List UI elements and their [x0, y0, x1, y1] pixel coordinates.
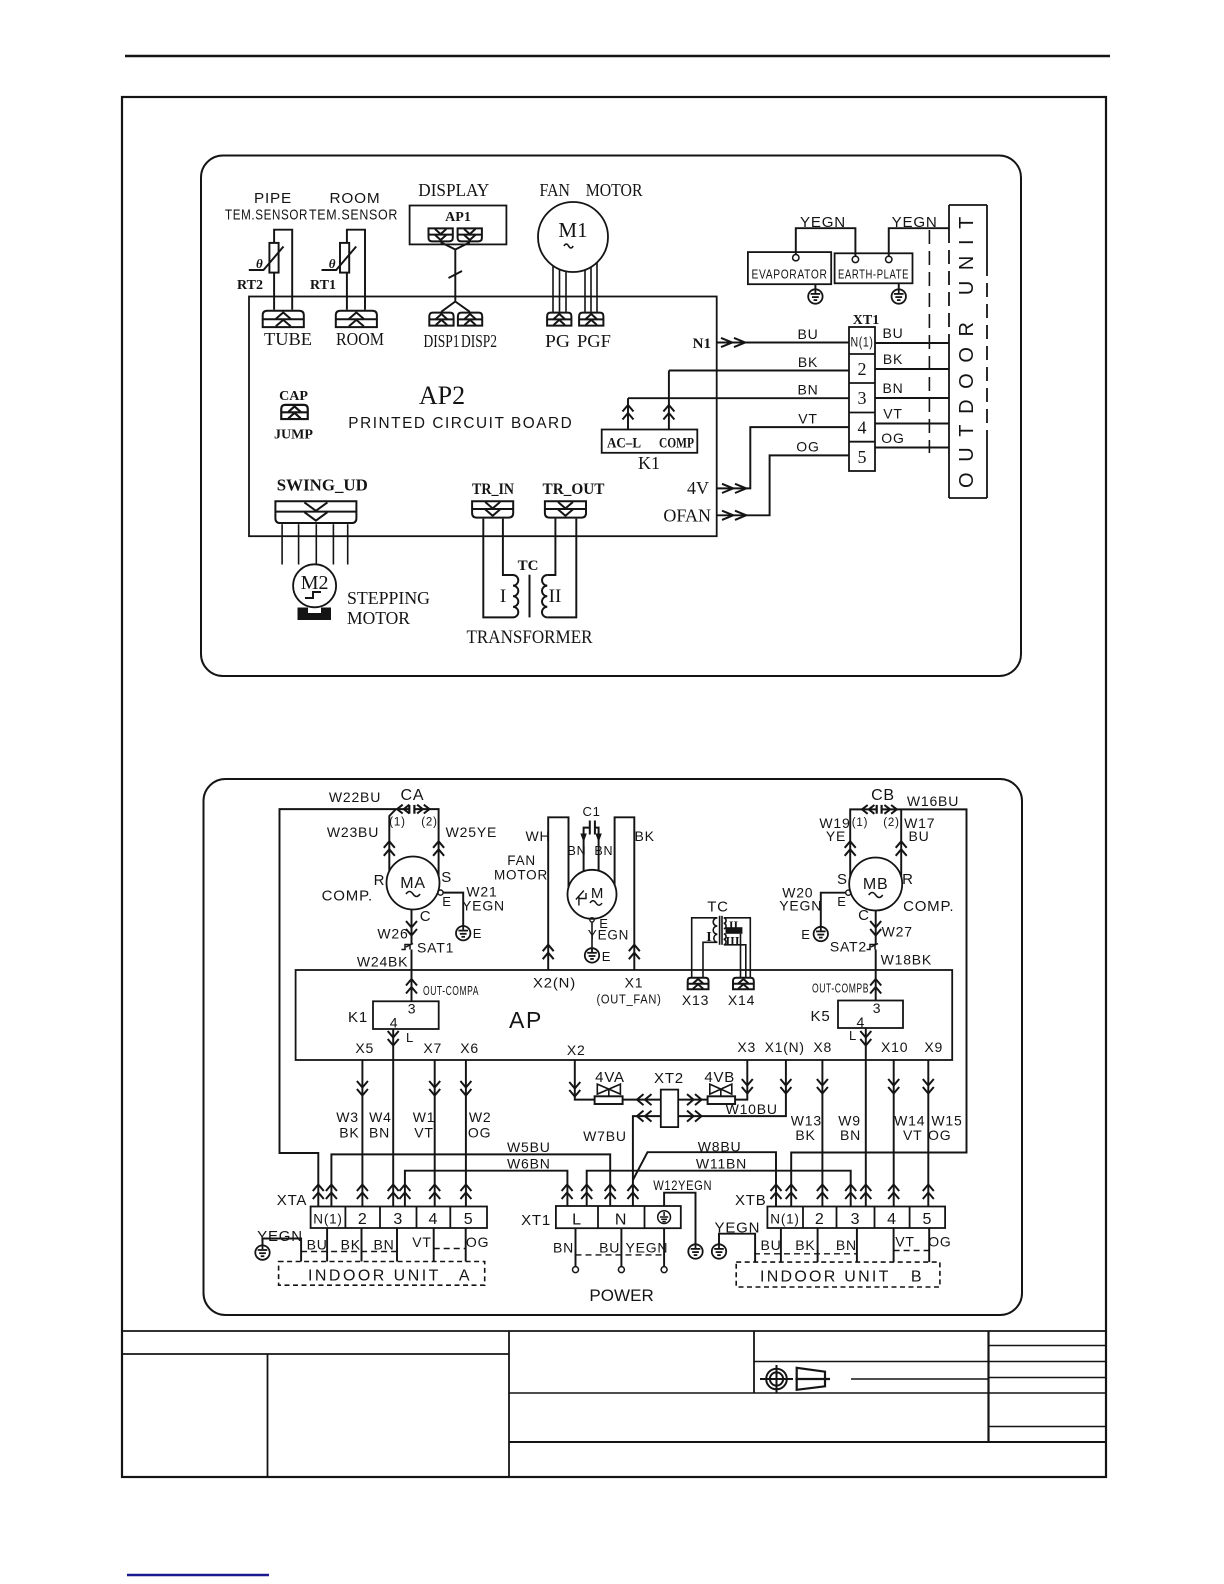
connector XT2 box: [661, 1090, 678, 1128]
wire W5BU: [331, 1154, 610, 1206]
svg-text:3: 3: [873, 1000, 882, 1016]
connector X14: [733, 978, 754, 989]
arrow XT2 right top: [687, 1094, 702, 1105]
svg-text:W3: W3: [336, 1109, 359, 1125]
svg-text:MA: MA: [400, 875, 426, 892]
ground MA: [456, 926, 470, 940]
arrow X3 down: [742, 1079, 753, 1094]
wire X9 to XTB5: [927, 1060, 929, 1207]
svg-text:OFAN: OFAN: [663, 506, 711, 526]
svg-text:W22BU: W22BU: [329, 789, 381, 805]
arrow XT2 left bottom: [637, 1111, 652, 1122]
arrow X7 down: [429, 1081, 440, 1096]
svg-text:X7: X7: [423, 1040, 442, 1056]
svg-text:BN: BN: [797, 382, 818, 398]
wire CA plate2 to corner: [414, 809, 438, 876]
wires M1 to PGF: [585, 263, 597, 312]
arrow C1 right (solid): [595, 834, 601, 843]
earth-plate terminal circle 2: [886, 256, 892, 262]
svg-text:(1): (1): [389, 817, 405, 829]
fan motor M circle (outdoor): [568, 870, 617, 919]
svg-text:S: S: [837, 871, 848, 888]
connector PGF: [579, 313, 603, 326]
wire CB plate1 W19YE: [850, 809, 877, 876]
svg-text:TR_OUT: TR_OUT: [543, 481, 605, 498]
svg-text:AP: AP: [509, 1007, 543, 1033]
svg-text:OG: OG: [928, 1234, 951, 1250]
svg-text:AC–L: AC–L: [607, 436, 641, 452]
svg-text:(2): (2): [883, 817, 899, 829]
svg-text:A: A: [459, 1268, 471, 1285]
wire W20YEGN to ground: [821, 893, 846, 927]
transformer TC secondary wires: [547, 519, 576, 618]
MB earth terminal: [846, 890, 851, 895]
svg-text:N1: N1: [693, 336, 711, 352]
svg-text:YEGN: YEGN: [257, 1228, 303, 1245]
wire M E to ground: [591, 922, 593, 948]
dashed cable power: [576, 1254, 665, 1256]
svg-text:M2: M2: [301, 572, 329, 594]
wire CB plate2 W16BU loop to XTB: [791, 809, 966, 1206]
arrow COMP pin: [663, 405, 674, 420]
svg-text:OUT-COMPA: OUT-COMPA: [423, 984, 479, 998]
wire XT2 to 4VB: [678, 1099, 707, 1101]
wire K1 L to XTA3: [392, 1029, 394, 1207]
svg-text:BN: BN: [840, 1127, 861, 1143]
wire BK: [669, 370, 849, 372]
svg-text:RT1: RT1: [310, 278, 336, 293]
label W9 BN: [838, 1113, 861, 1144]
svg-text:CB: CB: [871, 787, 895, 804]
connector TR_OUT (down): [545, 501, 586, 517]
evaporator box: [748, 252, 831, 284]
svg-text:BU: BU: [599, 1240, 620, 1256]
svg-text:VT: VT: [798, 411, 818, 427]
svg-text:COMP.: COMP.: [322, 888, 373, 905]
valve 4VA bowtie: [597, 1084, 620, 1096]
wire YEGN XTB: [719, 1234, 755, 1262]
connector DISP1: [429, 313, 453, 326]
arrows into XTB: [771, 1185, 934, 1200]
svg-text:STEPPING: STEPPING: [347, 588, 430, 608]
earth-plate box: [835, 253, 913, 283]
label W13 BK: [791, 1113, 822, 1144]
arrow X8 down: [817, 1079, 828, 1094]
svg-text:YEGN: YEGN: [625, 1240, 668, 1256]
svg-text:X5: X5: [355, 1040, 374, 1056]
arrows into XTA: [313, 1185, 472, 1200]
svg-text:MOTOR: MOTOR: [494, 868, 548, 883]
wire 4VB to X3: [735, 1060, 747, 1100]
svg-text:S: S: [441, 869, 452, 886]
label W19 YE: [819, 815, 850, 844]
title block top line: [122, 1330, 1106, 1332]
svg-text:X2(N): X2(N): [533, 975, 576, 991]
terminal block XTA: [311, 1207, 487, 1229]
transformer TC secondary coil II: [542, 575, 547, 617]
svg-text:CA: CA: [400, 787, 424, 804]
label W3 BK: [336, 1109, 359, 1141]
arrows into XT1 power: [562, 1185, 639, 1200]
wire W17BU to MB R: [900, 809, 902, 876]
svg-text:W1: W1: [413, 1109, 436, 1125]
power terminal circles: [573, 1267, 668, 1273]
wire C1 left lead: [584, 828, 590, 872]
svg-text:X1: X1: [625, 975, 644, 991]
svg-text:E: E: [801, 927, 810, 942]
svg-text:OG: OG: [468, 1125, 491, 1141]
svg-text:θ: θ: [256, 256, 263, 271]
svg-text:X8: X8: [813, 1039, 832, 1055]
wire AC-L pin to BN: [627, 398, 629, 429]
transformer TC primary coil I: [513, 575, 518, 617]
relay K1 box: [602, 430, 698, 453]
wires XT1 to power plug: [576, 1228, 665, 1266]
arrow C MB down: [870, 921, 881, 936]
label FAN MOTOR 2: [494, 853, 548, 883]
arrow X6 down: [460, 1081, 471, 1096]
outdoor unit box: [949, 205, 987, 498]
dashed boundary line: [928, 230, 930, 453]
svg-text:DISP2: DISP2: [461, 331, 497, 351]
svg-text:JUMP: JUMP: [274, 428, 313, 443]
svg-text:BN: BN: [553, 1240, 574, 1256]
M motor sine mark: [590, 901, 602, 905]
M1 sine mark: [564, 244, 573, 248]
svg-text:BK: BK: [634, 828, 654, 844]
svg-text:K5: K5: [811, 1008, 831, 1025]
svg-text:TC: TC: [518, 558, 539, 574]
svg-text:XT2: XT2: [654, 1070, 684, 1087]
svg-text:OG: OG: [881, 430, 904, 446]
svg-text:2: 2: [358, 1211, 368, 1228]
label W1 VT: [413, 1109, 436, 1141]
thermal switch SAT2: [867, 944, 879, 950]
svg-text:SAT2: SAT2: [830, 939, 867, 955]
arrow CB terminal 1: [862, 805, 874, 814]
svg-text:COMP: COMP: [659, 436, 694, 452]
label W17 BU: [904, 815, 935, 844]
svg-text:BU: BU: [908, 828, 929, 844]
thermistor RT2 body: [249, 243, 284, 273]
svg-text:E: E: [442, 894, 451, 909]
wire 4VA to XT2: [623, 1099, 661, 1101]
svg-text:DISP1: DISP1: [424, 331, 460, 351]
third-angle projection symbol circle: [760, 1365, 793, 1393]
svg-text:X14: X14: [728, 992, 755, 1008]
valve 4VA coil: [595, 1096, 623, 1104]
wire X7 to XTA4: [434, 1060, 436, 1207]
top rule line: [125, 55, 1110, 58]
capacitor CA plates: [409, 805, 414, 814]
wire X2(N) WH loop: [548, 817, 568, 969]
wires XTB to indoor unit B: [781, 1228, 929, 1262]
cable slash mark: [449, 271, 463, 278]
svg-text:X13: X13: [682, 992, 709, 1008]
arrow X9 down: [923, 1079, 934, 1094]
wire X1(N) W10BU to XT2: [678, 1060, 786, 1116]
connector SWING_UD (down): [275, 501, 356, 523]
svg-text:BN: BN: [369, 1125, 390, 1141]
svg-text:3: 3: [851, 1211, 861, 1228]
svg-text:PIPE: PIPE: [254, 190, 292, 207]
svg-text:INDOOR UNIT: INDOOR UNIT: [308, 1268, 440, 1285]
arrow K5 L down: [860, 1031, 871, 1046]
ground W12YEGN: [688, 1244, 702, 1258]
connector PG: [547, 313, 571, 326]
title block vertical x=509: [508, 1331, 510, 1477]
svg-text:N(1): N(1): [851, 334, 874, 350]
transformer TC primary wires: [483, 519, 513, 618]
evaporator terminal circle: [793, 255, 799, 261]
svg-text:C1: C1: [582, 804, 600, 819]
svg-text:N(1): N(1): [770, 1212, 799, 1227]
svg-text:W26: W26: [377, 926, 408, 942]
svg-text:4: 4: [858, 418, 867, 438]
stepping motor M2 circle: [293, 564, 336, 607]
svg-text:E: E: [837, 894, 846, 909]
svg-text:POWER: POWER: [589, 1286, 655, 1305]
svg-text:K1: K1: [638, 453, 660, 473]
arrow XT2 left top: [637, 1094, 652, 1105]
svg-text:XTB: XTB: [735, 1192, 767, 1209]
wire K5 L to XTB3: [865, 1028, 867, 1207]
svg-text:(1): (1): [852, 817, 868, 829]
svg-text:X2: X2: [567, 1042, 586, 1058]
svg-text:X6: X6: [460, 1040, 479, 1056]
svg-text:COMP.: COMP.: [903, 898, 954, 915]
swing ribbon wires: [282, 524, 348, 564]
indoor unit A box: [279, 1262, 485, 1286]
wire X2 to 4VA: [575, 1060, 595, 1100]
arrow OFAN: [722, 511, 746, 520]
svg-text:ROOM: ROOM: [336, 329, 384, 349]
capacitor C1: [590, 821, 595, 835]
svg-text:BK: BK: [795, 1237, 815, 1253]
connector AP1 pin1 (mating, down): [429, 228, 453, 241]
svg-text:DISPLAY: DISPLAY: [418, 180, 489, 200]
wire XT2 W7BU to XT1 N: [633, 1116, 661, 1206]
arrow CA terminal 2: [417, 805, 429, 814]
svg-text:FAN: FAN: [507, 853, 536, 868]
valve 4VB bowtie: [710, 1084, 732, 1096]
connector X13: [688, 978, 709, 989]
svg-text:4: 4: [887, 1211, 897, 1228]
svg-text:BU: BU: [307, 1237, 328, 1253]
valve 4VB coil: [708, 1096, 736, 1104]
connector DISP2: [458, 313, 482, 326]
svg-text:BN: BN: [836, 1237, 857, 1253]
wire C1 right lead: [595, 828, 599, 871]
svg-text:BU: BU: [882, 325, 903, 341]
svg-text:BN: BN: [594, 844, 613, 858]
dashed cable XTB right: [894, 1250, 930, 1252]
svg-text:E: E: [473, 926, 482, 941]
wire W6BN: [405, 1171, 568, 1207]
svg-text:SWING_UD: SWING_UD: [277, 476, 368, 495]
svg-text:XT1: XT1: [853, 313, 879, 328]
connector CAP jumper: [281, 405, 307, 419]
svg-text:W11BN: W11BN: [696, 1156, 747, 1172]
indoor unit B box: [736, 1262, 940, 1287]
wire W23BU to MA R: [389, 809, 396, 871]
svg-text:BK: BK: [339, 1125, 359, 1141]
svg-text:XT1: XT1: [521, 1212, 551, 1229]
dashed cable XTB: [754, 1253, 857, 1255]
transformer TC2 winding III: [724, 934, 726, 945]
AP2 printed circuit board outline: [249, 297, 717, 537]
svg-text:YEGN: YEGN: [779, 898, 822, 914]
thermal switch SAT1: [401, 944, 413, 950]
svg-text:ROOM: ROOM: [330, 190, 381, 207]
arrow CB terminal 2: [884, 805, 896, 814]
wire X6 to XTA5: [465, 1060, 467, 1207]
svg-text:θ: θ: [329, 256, 336, 271]
svg-text:W6BN: W6BN: [507, 1156, 551, 1172]
arrow W17BU: [896, 841, 907, 856]
svg-text:2: 2: [815, 1211, 825, 1228]
svg-text:L: L: [849, 1028, 857, 1043]
thermistor RT1 loop wire: [347, 230, 365, 310]
svg-text:VT: VT: [414, 1125, 434, 1141]
title block right col line y=1377: [989, 1377, 1107, 1379]
wire W22BU loop to XTA: [280, 809, 410, 1206]
svg-text:3: 3: [408, 1001, 417, 1017]
svg-text:BK: BK: [798, 354, 818, 370]
svg-text:OG: OG: [928, 1127, 951, 1143]
svg-text:W16BU: W16BU: [907, 793, 959, 809]
svg-text:AP1: AP1: [445, 210, 471, 225]
svg-text:W10BU: W10BU: [726, 1101, 778, 1117]
bottom-left blue underline: [127, 1574, 269, 1576]
svg-text:OG: OG: [796, 439, 819, 455]
svg-text:RT2: RT2: [237, 278, 263, 293]
capacitor CB plates: [877, 805, 882, 814]
svg-text:W12YEGN: W12YEGN: [653, 1177, 712, 1193]
arrow N1: [721, 338, 745, 347]
terminal block XTB: [767, 1207, 945, 1229]
svg-text:K1: K1: [348, 1009, 368, 1026]
svg-text:W4: W4: [369, 1109, 392, 1125]
projection symbol line: [851, 1378, 989, 1380]
wire BU N1: [717, 342, 849, 344]
svg-text:C: C: [858, 907, 870, 924]
M2 step mark: [305, 592, 321, 598]
arrow CA terminal 1: [397, 805, 409, 814]
svg-text:(OUT_FAN): (OUT_FAN): [597, 993, 662, 1007]
svg-text:W18BK: W18BK: [881, 952, 932, 968]
diagram panel 2 border: [204, 779, 1023, 1315]
label W15 OG: [928, 1113, 963, 1144]
svg-text:VT: VT: [412, 1234, 432, 1250]
svg-text:PGF: PGF: [577, 331, 611, 351]
label W14 VT: [894, 1113, 925, 1144]
svg-text:VT: VT: [895, 1234, 915, 1250]
svg-text:II: II: [729, 918, 739, 932]
svg-text:W25YE: W25YE: [446, 824, 497, 840]
wire earth-plate to outdoor unit: [889, 228, 949, 256]
svg-text:TC: TC: [707, 899, 729, 916]
svg-text:W5BU: W5BU: [507, 1139, 551, 1155]
svg-text:M1: M1: [558, 218, 587, 242]
label W2 OG: [468, 1109, 492, 1141]
arrow C1 left (solid): [580, 834, 586, 843]
svg-text:5: 5: [922, 1211, 932, 1228]
AP outdoor board outline: [296, 970, 953, 1060]
svg-text:TEM.SENSOR: TEM.SENSOR: [225, 207, 308, 224]
connector TUBE: [263, 311, 304, 327]
arrow AC-L pin: [623, 405, 634, 420]
arrow X10 down: [888, 1079, 899, 1094]
dashed cable XTA: [301, 1251, 397, 1253]
wire W8BU: [633, 1152, 776, 1206]
wire W11BN: [587, 1171, 851, 1207]
svg-text:L: L: [406, 1030, 414, 1045]
connector ROOM: [336, 311, 377, 327]
relay K1 box (board AP): [373, 1001, 439, 1029]
svg-text:PRINTED CIRCUIT BOARD: PRINTED CIRCUIT BOARD: [348, 415, 573, 432]
connector TR_IN (down): [472, 501, 513, 517]
svg-text:TR_IN: TR_IN: [472, 481, 514, 498]
M motor protector mark: [576, 891, 586, 906]
title block line y=1442: [509, 1441, 1106, 1443]
svg-text:FAN MOTOR: FAN MOTOR: [540, 180, 643, 200]
arrow X5 down: [357, 1081, 368, 1096]
arrow 4V: [722, 484, 746, 493]
display board AP1 box: [410, 206, 507, 245]
svg-text:I: I: [500, 586, 506, 607]
arrow W23BU: [384, 841, 395, 856]
arrow OUT-COMPA: [406, 979, 417, 994]
svg-text:M: M: [591, 885, 604, 902]
svg-text:EARTH-PLATE: EARTH-PLATE: [838, 268, 909, 282]
svg-text:X1(N): X1(N): [765, 1039, 805, 1055]
svg-text:XTA: XTA: [277, 1192, 307, 1209]
wire OG OFAN: [717, 455, 849, 515]
svg-text:WH: WH: [526, 828, 551, 844]
svg-text:B: B: [911, 1269, 923, 1286]
svg-text:AP2: AP2: [419, 381, 465, 410]
terminal block XT1: [849, 327, 875, 471]
svg-text:E: E: [602, 949, 611, 964]
svg-text:CAP: CAP: [279, 389, 308, 404]
svg-text:4: 4: [429, 1211, 439, 1228]
svg-text:X10: X10: [881, 1039, 908, 1055]
arrow W19YE: [845, 841, 856, 856]
svg-text:EVAPORATOR: EVAPORATOR: [752, 268, 828, 282]
wire COMP pin to BK: [668, 371, 670, 430]
transformer TC2 winding II: [724, 918, 726, 929]
svg-text:II: II: [549, 586, 562, 607]
title block vertical x=754: [753, 1331, 755, 1393]
wire OG right: [875, 447, 949, 449]
arrow X1(N) down: [780, 1079, 791, 1094]
wire VT right: [875, 423, 949, 425]
svg-text:W7BU: W7BU: [583, 1128, 627, 1144]
MA sine mark: [406, 892, 420, 897]
wire W18BK: [875, 950, 877, 1001]
svg-text:5: 5: [858, 447, 867, 467]
wire BU right: [875, 342, 949, 344]
svg-text:PG: PG: [545, 331, 570, 351]
diagram panel 1 border: [201, 156, 1021, 677]
svg-text:BN: BN: [373, 1237, 394, 1253]
svg-text:YEGN: YEGN: [462, 898, 505, 914]
wire BN: [628, 397, 849, 399]
thermistor RT1 body: [322, 243, 357, 273]
title block vertical x=267: [267, 1354, 269, 1477]
label W4 BN: [369, 1109, 392, 1141]
